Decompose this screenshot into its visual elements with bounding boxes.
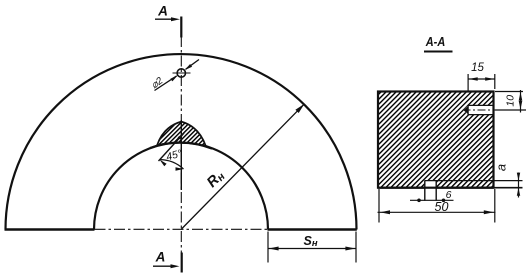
hole outline bottom [468,114,493,116]
bottom edge redraw with groove gap [378,187,425,189]
Sn dimension line [268,248,356,250]
dim a line [518,173,520,198]
svg-text:15: 15 [471,62,484,74]
section body outline [378,92,494,188]
dim 15 extension right [494,74,496,89]
hole conical point (filled) [463,106,468,115]
weld wedge (hatched segment on inner arc) [157,122,206,147]
dim 50 extension left [378,189,380,223]
hole flat end [467,105,469,115]
section title underline [424,51,453,53]
dim 10 extension bottom [495,109,526,111]
horizontal centerline [95,228,268,230]
Rn radius dimension line [181,105,304,230]
45deg dimension: diagonal ray [159,133,185,161]
dim 15 extension left [467,74,469,91]
Sn dimension extension line right [355,232,357,263]
45deg dimension arc [160,160,184,169]
section arrow bottom: arrow line [153,265,171,267]
svg-text:50: 50 [435,200,449,214]
groove cutout (white) [425,180,436,189]
svg-text:A: A [157,4,168,19]
hole centerline [463,109,504,111]
solid centerline segment through wedge / 45deg ray [180,120,182,190]
svg-text:a: a [494,164,509,171]
groove right side + extension down [435,180,437,200]
section trace top [180,17,182,38]
hole horizontal centerline tick [173,72,191,74]
thermocouple hole (white slot) [463,105,493,114]
inner arc over wedge [150,143,212,149]
inner arc of half-ring [94,143,268,230]
dia2 leader lower segment [155,76,177,91]
outer arc of half-ring [6,54,357,229]
section arrow top: arrow line [155,18,172,20]
Sn dimension extension line left [267,232,269,263]
svg-text:A-A: A-A [425,34,445,49]
dim 10 extension top [495,91,523,93]
vertical centerline [180,36,182,253]
dia2 leader upper segment [186,60,199,70]
dim 15 line [468,78,495,80]
dim 6 line with dots [410,199,454,201]
groove left side + extension down [424,180,426,200]
bottom face line right [268,228,357,231]
svg-text:10: 10 [505,95,517,107]
groove top extension line to the right [425,180,523,182]
dim 50 extension right [494,189,496,223]
svg-text:A: A [155,250,166,265]
dim 50 line [378,211,496,213]
section trace bottom [181,253,183,273]
hole outline top [468,104,493,106]
small hole dia 2 [177,69,185,77]
section body hatched rectangle [378,92,494,188]
bottom face line left [5,228,95,231]
bottom edge extension to the right [494,187,523,189]
dim 10 line [520,90,522,113]
